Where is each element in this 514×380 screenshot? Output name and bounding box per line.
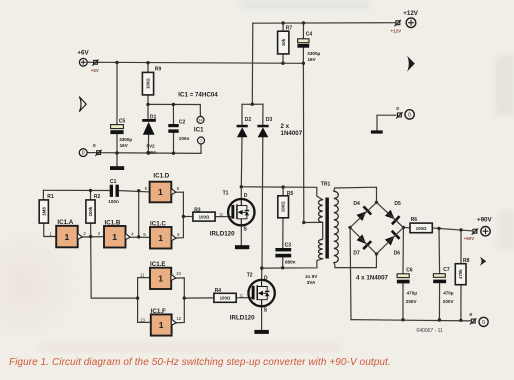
resistor R3 [193, 207, 215, 221]
wire D3 cathode up [262, 104, 264, 125]
wire IC1.A out to IC1.B in [82, 236, 104, 238]
wire C6 bottom [402, 284, 404, 320]
wire IC1.D out [171, 191, 183, 193]
svg-text:10k: 10k [281, 38, 286, 46]
node +12V/R7 junction [281, 21, 284, 24]
svg-text:1N4007: 1N4007 [281, 130, 303, 137]
svg-text:D1: D1 [150, 114, 157, 120]
node C7 top junction [437, 227, 440, 230]
wire C2 bottom [173, 133, 175, 153]
svg-text:S: S [264, 307, 268, 313]
svg-text:100k: 100k [88, 206, 93, 216]
diode D5 bridge upper-right [385, 201, 401, 225]
node R8 top junction [459, 228, 462, 231]
node +6V/C4 junction [302, 62, 305, 65]
wire C7 branch down [438, 229, 441, 274]
svg-text:C3: C3 [285, 242, 292, 248]
wire IC1.E input branch [138, 278, 150, 299]
svg-text:IC1.E: IC1.E [150, 261, 165, 268]
diode D4 bridge upper-left [353, 201, 372, 221]
wire feedback riser x138.7 [138, 191, 140, 237]
svg-text:R1: R1 [47, 194, 54, 200]
svg-text:C4: C4 [306, 31, 313, 37]
wire T1 drain rail to TR1 primary top [241, 187, 322, 200]
node C2/ground junction [172, 152, 175, 155]
wire R9 top [147, 63, 149, 73]
node +6V/R7 junction [281, 62, 284, 65]
wire D1 top [147, 104, 149, 119]
svg-text:13: 13 [140, 317, 145, 322]
svg-text:+90V: +90V [477, 217, 492, 224]
wire IC1.F output branch [176, 298, 184, 323]
node T1 drain junction [240, 185, 243, 188]
svg-text:T1: T1 [223, 191, 229, 197]
wire C3 bottom to primary-bottom rail [282, 258, 284, 268]
diode D7 bridge lower-left [353, 234, 372, 256]
ghost bleed-through pink bottom-left [0, 230, 80, 340]
svg-text:S: S [244, 226, 248, 232]
TR1 primary halves link [322, 222, 324, 239]
svg-text:C7: C7 [443, 267, 450, 273]
zener diode D1 5V2 0W4 [142, 114, 156, 155]
svg-text:R6: R6 [411, 217, 418, 223]
wire C5 bottom to 0 rail [116, 134, 118, 153]
wire T2 drain lead [261, 268, 263, 280]
svg-text:470k: 470k [458, 269, 463, 279]
wire R7 top [282, 23, 284, 31]
svg-text:100n: 100n [179, 136, 190, 141]
page-link arrow solid right [480, 257, 486, 266]
svg-text:4 x 1N4007: 4 x 1N4007 [356, 275, 389, 282]
svg-text:+5V: +5V [91, 68, 99, 73]
svg-text:0: 0 [482, 320, 485, 326]
wire R8 branch down [460, 230, 462, 264]
node R9/D1/rail junction [146, 103, 149, 106]
svg-text:C2: C2 [179, 120, 186, 126]
terminal 0 bottom-right [469, 312, 488, 327]
svg-text:R8: R8 [463, 258, 470, 264]
node C2 top junction [172, 103, 175, 106]
TR1 secondary winding [334, 191, 339, 262]
node C1/feedback junction [137, 189, 140, 192]
svg-text:100Ω: 100Ω [220, 296, 231, 301]
svg-text:D6: D6 [394, 251, 401, 257]
wire IC1.B out to IC1.C in [130, 236, 150, 238]
svg-text:+12V: +12V [403, 10, 418, 17]
svg-text:0: 0 [396, 106, 399, 112]
wire R7 bottom [282, 54, 284, 63]
node centre tap junction [302, 221, 305, 224]
wire ground stub below C5 node [116, 153, 118, 166]
svg-text:IC1 = 74HC04: IC1 = 74HC04 [178, 92, 218, 99]
svg-text:R7: R7 [286, 26, 293, 32]
terminal +90V [464, 217, 493, 242]
ghost bleed-through pink above caption [40, 344, 340, 351]
resistor R8 [455, 258, 469, 285]
svg-text:R5: R5 [287, 191, 294, 197]
wire secondary top to bridge top vertex [334, 187, 377, 202]
svg-text:4: 4 [131, 231, 134, 236]
svg-text:IC1.F: IC1.F [151, 308, 166, 315]
wire node rail y104 to IC1 pin14 [148, 104, 200, 116]
wire R5 top [282, 187, 284, 196]
svg-text:8: 8 [177, 186, 180, 191]
caption Figure 1 [9, 357, 511, 368]
wire C1 to IC1.D input [119, 191, 150, 192]
svg-text:D: D [264, 275, 268, 281]
svg-text:16V: 16V [120, 143, 129, 148]
label 2x 1N4007 [281, 123, 303, 137]
ground below C5 node [110, 166, 124, 170]
svg-text:100Ω: 100Ω [281, 201, 286, 212]
wire R5 bottom to C3 [282, 218, 284, 248]
svg-text:IRLD120: IRLD120 [230, 314, 255, 321]
node bridge bottom vertex [375, 252, 378, 255]
node R5 top junction [281, 185, 284, 188]
svg-text:1: 1 [158, 187, 163, 197]
capacitor C7 electrolytic 470u 200V [433, 267, 454, 304]
svg-text:100Ω: 100Ω [416, 226, 427, 231]
transistor T1 IRLD120 [210, 191, 255, 238]
IC1 supply pin 7 [198, 137, 205, 144]
transformer TR1 [305, 181, 338, 284]
capacitor C6 electrolytic 470u 200V [397, 268, 418, 304]
node E/F output junction [183, 296, 186, 299]
svg-text:R3: R3 [194, 207, 201, 213]
resistor R6 [410, 217, 432, 233]
node IC1.A out junction [89, 235, 92, 238]
svg-text:R2: R2 [94, 194, 101, 200]
terminal +6V [77, 49, 99, 73]
svg-text:C6: C6 [406, 268, 413, 274]
wire output ground rail [351, 320, 470, 321]
page-link arrow solid top-right [407, 56, 415, 72]
inverter gate IC1.C [143, 221, 180, 249]
wire D1 bottom [147, 135, 149, 153]
node gate drive T1 junction [182, 215, 185, 218]
svg-text:IRLD120: IRLD120 [210, 230, 235, 237]
wire R2 bottom [90, 223, 92, 237]
svg-text:D7: D7 [353, 251, 360, 257]
terminal 0 left [79, 143, 101, 157]
node D2/D3 cathode junction [251, 103, 254, 106]
svg-text:0: 0 [93, 143, 96, 149]
svg-text:16V: 16V [308, 57, 317, 62]
svg-text:1: 1 [49, 231, 52, 236]
capacitor C5 electrolytic 3300u 16V [110, 119, 132, 148]
node C7 ground junction [438, 318, 441, 321]
svg-text:G: G [220, 212, 223, 217]
resistor R4 [214, 288, 236, 302]
wire primary bottom rail [262, 259, 323, 269]
wire +6V terminal stub [88, 61, 100, 63]
svg-text:+12V: +12V [391, 28, 402, 33]
svg-text:IC1.C: IC1.C [150, 221, 166, 228]
svg-text:3300µ: 3300µ [119, 137, 132, 142]
node bridge left vertex [348, 226, 351, 229]
wire C4 bottom to rail end and centre-tap drop [302, 48, 304, 223]
svg-text:470µ: 470µ [443, 290, 454, 295]
svg-text:TR1: TR1 [321, 181, 331, 187]
inverter gate IC1.E [140, 261, 181, 289]
wire oscillator top rail to C1 [43, 189, 110, 191]
svg-text:3: 3 [98, 231, 101, 236]
node E/F input junction [136, 296, 139, 299]
svg-text:D5: D5 [394, 201, 401, 207]
svg-text:IC1.B: IC1.B [105, 220, 121, 227]
svg-text:5: 5 [143, 232, 146, 237]
TR1 primary bottom half winding [318, 239, 322, 258]
node C6 ground junction [401, 318, 404, 321]
svg-text:200V: 200V [443, 299, 455, 304]
diode D3 [257, 117, 272, 137]
svg-text:2x 9V: 2x 9V [305, 274, 318, 279]
svg-text:0: 0 [82, 151, 85, 157]
svg-text:G: G [240, 294, 243, 299]
svg-text:6: 6 [177, 232, 180, 237]
svg-text:+6V: +6V [77, 49, 89, 56]
wire C5 branch down [116, 63, 118, 125]
diode D2 [237, 117, 252, 137]
inverter gate IC1.F [140, 308, 182, 336]
wire secondary bottom to bridge bottom vertex [334, 254, 377, 268]
svg-text:100n: 100n [108, 199, 119, 204]
svg-text:470µ: 470µ [407, 290, 418, 295]
wire +12V top rail [253, 22, 395, 25]
wire C2 top [172, 105, 174, 125]
resistor R1 [39, 194, 54, 223]
wire IC1 pin7 to 0V rail [200, 144, 202, 154]
transistor T2 IRLD120 [230, 273, 275, 322]
svg-text:T2: T2 [247, 273, 253, 279]
svg-text:040007 - 11: 040007 - 11 [417, 328, 444, 334]
wire 0 left terminal stub [88, 152, 101, 154]
wire R1 bottom to IC1.A input [44, 223, 57, 236]
wire R2 top [90, 190, 92, 200]
svg-text:200V: 200V [406, 299, 418, 304]
svg-text:+90V: +90V [464, 236, 475, 241]
node +6V/R9 junction [146, 61, 149, 64]
wire R6 to +90V plug [432, 228, 472, 231]
resistor R5 [278, 191, 294, 218]
capacitor C1 100n [108, 179, 119, 204]
inverter gate IC1.A [49, 219, 86, 247]
wire IC1.E output branch [176, 278, 185, 298]
svg-text:1M8: 1M8 [41, 207, 46, 216]
svg-text:0: 0 [469, 312, 472, 318]
node +6V/C5 junction [115, 61, 118, 64]
node bridge top vertex [375, 201, 378, 204]
wire bridge right corner down to C6 [402, 228, 404, 274]
wire centre tap horizontal [304, 221, 323, 223]
svg-text:0W4: 0W4 [146, 150, 156, 155]
node +12V/C4 junction [302, 21, 305, 24]
svg-text:D4: D4 [353, 201, 360, 207]
wire R3 to T1 gate [215, 216, 232, 218]
ground T2 source [254, 330, 268, 334]
svg-text:7: 7 [200, 139, 202, 143]
svg-text:D: D [244, 193, 248, 199]
capacitor C3 680n [275, 242, 295, 264]
wire C4 top [302, 23, 304, 39]
capacitor C4 electrolytic 3300u 16V [297, 31, 320, 62]
svg-text:C5: C5 [119, 119, 126, 125]
terminal 0 mid-right [396, 106, 414, 119]
svg-text:10: 10 [176, 271, 181, 276]
TR1 core [325, 198, 329, 259]
resistor R2 [86, 194, 101, 223]
wire gate node to R3 [183, 216, 193, 218]
svg-text:1: 1 [158, 274, 163, 284]
svg-text:680n: 680n [285, 260, 296, 265]
wire D2 D3 cathode tie [242, 103, 263, 105]
page-link arrow outline left [79, 97, 86, 112]
svg-text:100Ω: 100Ω [146, 78, 151, 89]
svg-text:11: 11 [140, 273, 145, 278]
svg-text:1: 1 [158, 233, 163, 243]
wire R1 top corner [42, 190, 44, 200]
svg-text:IC1.A: IC1.A [57, 219, 73, 226]
terminal +12V [391, 10, 419, 33]
TR1 primary top half winding [318, 200, 322, 223]
svg-text:3VA: 3VA [307, 280, 316, 285]
IC1 supply pin 14 [197, 116, 204, 123]
node T2 drain junction [260, 266, 263, 269]
wire bridge arms [350, 202, 403, 254]
svg-text:5V2: 5V2 [146, 144, 155, 149]
svg-text:R4: R4 [215, 288, 222, 294]
svg-text:D3: D3 [266, 117, 273, 123]
node D1/ground junction [147, 151, 150, 154]
wire bridge left corner to ground rail [349, 228, 352, 320]
wire R4 to T2 gate [236, 297, 252, 299]
svg-text:9: 9 [145, 186, 148, 191]
node R2 top junction [89, 189, 92, 192]
node bridge right vertex [402, 226, 405, 229]
resistor R7 [278, 26, 293, 54]
node IC1.B out junction [137, 235, 140, 238]
wire T1 drain lead [240, 187, 242, 199]
svg-text:14: 14 [198, 118, 202, 122]
wire E/F node to R4 [184, 297, 214, 299]
inverter gate IC1.B [98, 220, 135, 248]
svg-text:1: 1 [159, 320, 164, 330]
wire D2 cathode up [241, 104, 243, 124]
diode D6 bridge lower-right [385, 230, 401, 257]
svg-text:1: 1 [112, 232, 117, 242]
svg-text:12: 12 [176, 316, 181, 321]
ground T1 source [235, 245, 249, 249]
svg-text:1: 1 [65, 232, 70, 242]
node C5/ground junction [115, 151, 118, 154]
svg-text:3300µ: 3300µ [307, 51, 320, 56]
wire R8 bottom [460, 285, 462, 321]
wire D3 anode down to T2 drain node [261, 137, 264, 268]
ghost bleed-through blue top centre [240, 0, 370, 10]
svg-text:100Ω: 100Ω [199, 214, 210, 219]
svg-text:2: 2 [83, 231, 86, 236]
svg-text:C1: C1 [110, 179, 117, 185]
wire T1 source to ground [240, 225, 242, 245]
svg-text:D2: D2 [245, 117, 252, 123]
wire bridge right corner to R6 [403, 227, 410, 229]
node C3 bottom junction [281, 266, 284, 269]
capacitor C2 100n [168, 120, 189, 141]
wire 0V rail left section [101, 152, 202, 155]
svg-text:IC1: IC1 [194, 126, 204, 133]
svg-text:0: 0 [408, 113, 411, 119]
ground mid-right 0 terminal [371, 130, 383, 133]
wire IC1.F input branch [138, 298, 151, 322]
svg-text:IC1.D: IC1.D [153, 172, 169, 179]
wire IC1.C out to riser [176, 192, 184, 238]
resistor R9 [142, 67, 161, 95]
wire D2 anode down to T1 drain node [240, 137, 243, 187]
svg-text:R9: R9 [155, 67, 162, 73]
wire T2 source to ground [261, 306, 263, 329]
node R8 ground junction [459, 319, 462, 322]
wire mid-right 0 terminal to ground [377, 115, 396, 130]
inverter gate IC1.D [145, 172, 180, 202]
wire +12V riser to D2/D3 node [251, 23, 254, 104]
wire +6V rail [100, 62, 304, 63]
wire R9 bottom to node rail [147, 95, 149, 105]
wire IC1.A-B node down to E/F input rail [91, 237, 138, 299]
wire C7 bottom [438, 283, 440, 320]
